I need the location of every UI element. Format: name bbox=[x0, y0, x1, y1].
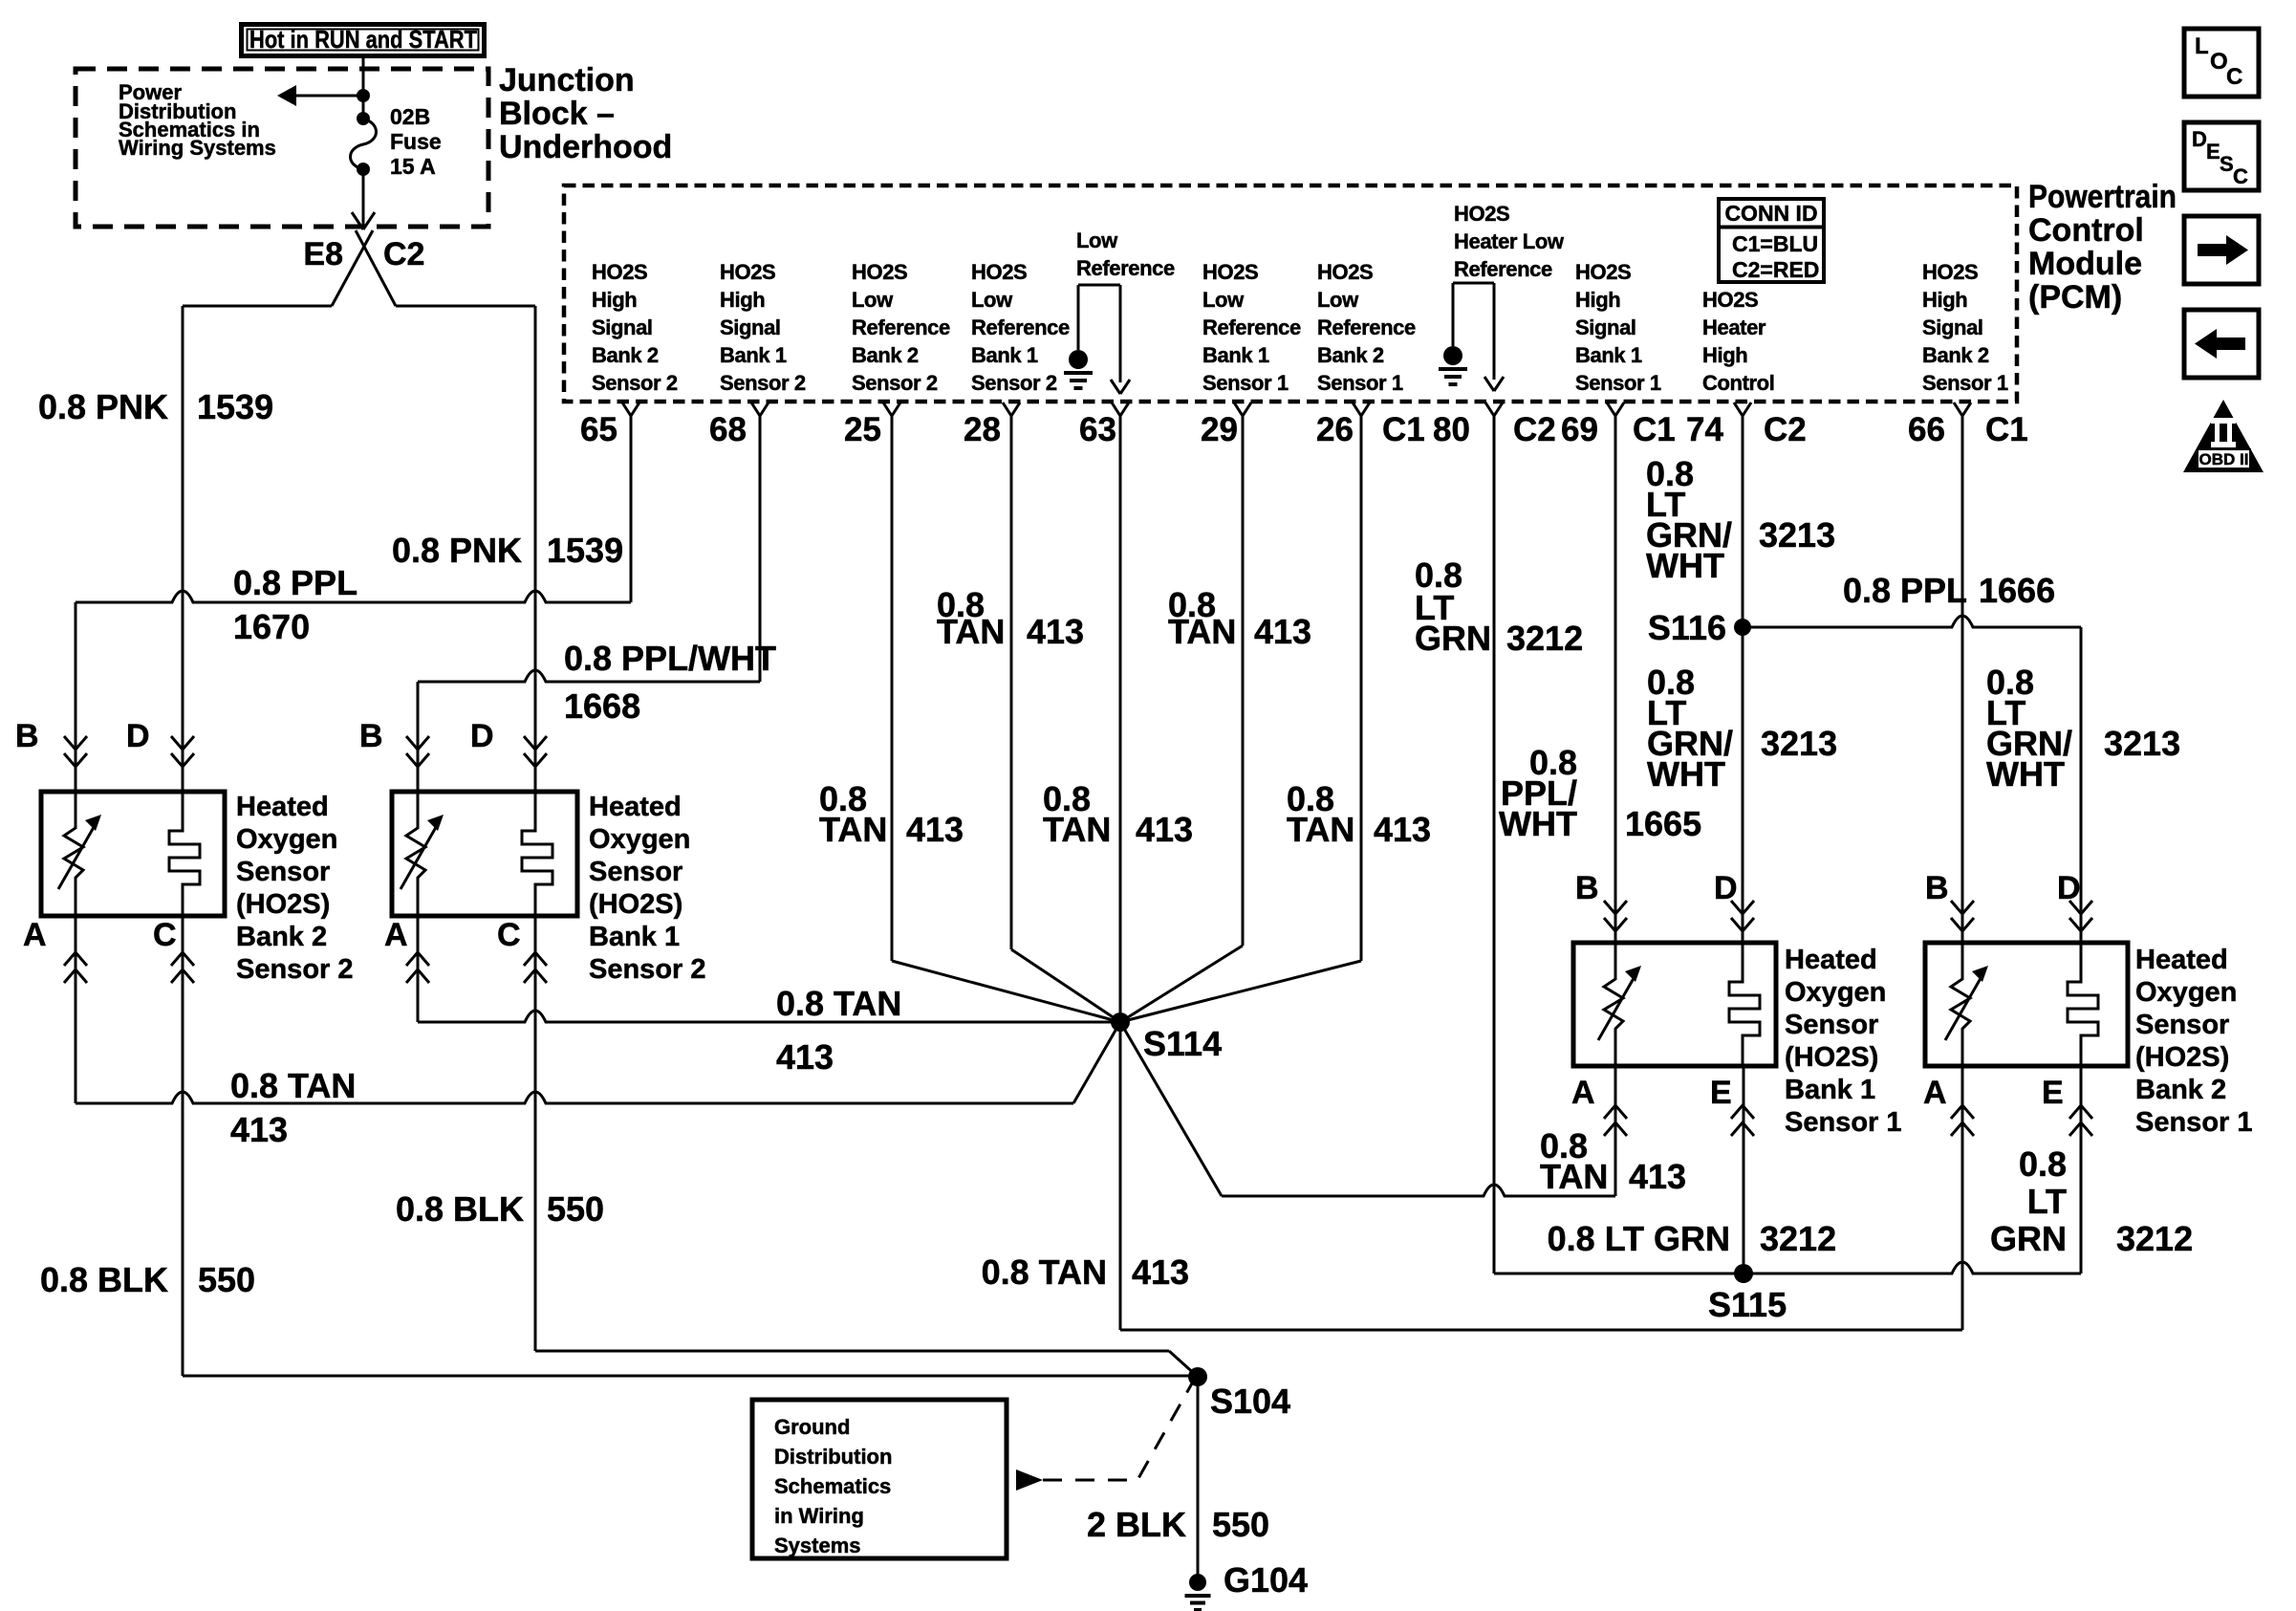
svg-text:0.8 TAN: 0.8 TAN bbox=[230, 1066, 356, 1105]
wire with down arrow into connector E8 bbox=[352, 172, 375, 229]
wire 2 BLK 550 to ground bbox=[1197, 1377, 1200, 1574]
svg-text:B: B bbox=[1925, 870, 1949, 906]
svg-text:LT: LT bbox=[2027, 1182, 2067, 1221]
svg-text:Reference: Reference bbox=[1076, 256, 1175, 280]
svg-text:Bank 2: Bank 2 bbox=[592, 343, 659, 367]
svg-text:Low: Low bbox=[852, 288, 894, 312]
pin 28 bbox=[1003, 403, 1020, 416]
label: Heated Oxygen Sensor (HO2S) Bank 1 Sensor 2 bbox=[589, 792, 706, 985]
svg-text:Bank 2: Bank 2 bbox=[852, 343, 919, 367]
svg-text:D: D bbox=[470, 718, 494, 754]
heater element (variable resistor) of HO2S Bank 2 Sensor 2 bbox=[64, 792, 83, 916]
svg-text:Control: Control bbox=[1702, 371, 1774, 395]
ground (internal, Low Reference pin 63) bbox=[1064, 285, 1093, 388]
svg-text:0.8 PPL/WHT: 0.8 PPL/WHT bbox=[564, 639, 776, 678]
svg-text:3212: 3212 bbox=[2116, 1219, 2193, 1258]
pin 68 bbox=[751, 403, 769, 416]
svg-text:HO2S: HO2S bbox=[971, 260, 1027, 284]
fuse F1 02B 15A bbox=[351, 112, 377, 176]
svg-text:Systems: Systems bbox=[774, 1534, 861, 1557]
svg-text:3212: 3212 bbox=[1506, 619, 1583, 658]
svg-text:TAN: TAN bbox=[937, 612, 1005, 651]
svg-text:65: 65 bbox=[580, 411, 617, 448]
svg-text:High: High bbox=[1702, 343, 1747, 367]
connector arrows out of B1S1 (A,E) bbox=[1604, 1105, 1627, 1119]
wire shoulders below E8/C2 bbox=[183, 305, 332, 308]
svg-text:Bank 2: Bank 2 bbox=[1317, 343, 1384, 367]
svg-text:Heater: Heater bbox=[1702, 316, 1766, 339]
label: Heated Oxygen Sensor (HO2S) Bank 2 Sensor 2 bbox=[236, 792, 354, 985]
svg-text:High: High bbox=[592, 288, 637, 312]
pin label HO2S Heater High Control (pin 74) bbox=[1702, 288, 1774, 395]
svg-text:High: High bbox=[720, 288, 765, 312]
svg-text:Bank 2: Bank 2 bbox=[1922, 343, 1989, 367]
svg-text:WHT: WHT bbox=[1647, 754, 1725, 794]
svg-text:S116: S116 bbox=[1648, 608, 1726, 647]
svg-text:HO2S: HO2S bbox=[720, 260, 775, 284]
wire pin69 PPL/WHT down to B of B1S1 bbox=[1614, 416, 1617, 943]
svg-text:C2=RED: C2=RED bbox=[1732, 257, 1819, 282]
pin label HO2S High Signal Bank 1 Sensor 2 (pin 68) bbox=[720, 260, 806, 395]
svg-text:413: 413 bbox=[776, 1037, 834, 1077]
sensing element of HO2S Bank 2 Sensor 1 bbox=[2068, 943, 2098, 1066]
svg-text:0.8 BLK: 0.8 BLK bbox=[40, 1260, 168, 1299]
arrow to power distribution bbox=[277, 85, 363, 106]
svg-text:413: 413 bbox=[1132, 1252, 1189, 1292]
svg-text:(HO2S): (HO2S) bbox=[2135, 1042, 2229, 1073]
wire bracket to pin 63 with arrow bbox=[1078, 285, 1130, 394]
svg-text:GRN: GRN bbox=[1990, 1219, 2067, 1258]
icon LOC button bbox=[2184, 29, 2259, 97]
svg-text:A: A bbox=[1571, 1075, 1595, 1111]
svg-text:413: 413 bbox=[1629, 1157, 1686, 1196]
svg-text:TAN: TAN bbox=[1540, 1157, 1608, 1196]
svg-text:Ground: Ground bbox=[774, 1415, 850, 1439]
svg-text:(PCM): (PCM) bbox=[2028, 279, 2122, 316]
svg-text:Bank 2: Bank 2 bbox=[236, 922, 327, 952]
wire pin63 down to S114 bbox=[1119, 416, 1122, 1022]
svg-text:S: S bbox=[2220, 152, 2234, 176]
svg-text:S115: S115 bbox=[1708, 1285, 1787, 1324]
svg-text:S104: S104 bbox=[1210, 1382, 1290, 1421]
pin 26 bbox=[1353, 403, 1370, 416]
svg-text:Wiring Systems: Wiring Systems bbox=[119, 136, 276, 160]
pin label HO2S High Signal Bank 2 Sensor 1 (pin 66) bbox=[1922, 260, 2008, 395]
wire 0.8 TAN 413 from A of B2S2 to S114 bbox=[76, 1092, 1073, 1103]
svg-text:C2: C2 bbox=[1764, 411, 1807, 448]
svg-text:1665: 1665 bbox=[1625, 804, 1701, 843]
wire A of B1S2 down to TAN bus bbox=[417, 916, 420, 1022]
heated oxygen sensor HO2S Bank 1 Sensor 2 box bbox=[392, 792, 577, 916]
splice S114 bbox=[1111, 1012, 1130, 1032]
svg-text:Low: Low bbox=[1202, 288, 1245, 312]
svg-text:3212: 3212 bbox=[1760, 1219, 1836, 1258]
pin 69 bbox=[1607, 403, 1624, 416]
svg-text:C1: C1 bbox=[1382, 411, 1425, 448]
wire C of B1S2 (BLK 550) down bbox=[534, 916, 537, 1351]
node junction dot bbox=[357, 89, 370, 102]
svg-text:Underhood: Underhood bbox=[499, 129, 672, 165]
svg-text:O: O bbox=[2210, 49, 2228, 75]
splice S104 bbox=[1188, 1367, 1207, 1386]
pin 29 bbox=[1234, 403, 1251, 416]
svg-text:413: 413 bbox=[1374, 810, 1431, 849]
pin label HO2S Low Reference Bank 2 Sensor 1 (pin 26) bbox=[1317, 260, 1416, 395]
svg-text:Heated: Heated bbox=[1785, 945, 1877, 975]
svg-text:69: 69 bbox=[1561, 411, 1598, 448]
svg-text:550: 550 bbox=[547, 1189, 604, 1229]
svg-text:C2: C2 bbox=[1513, 411, 1556, 448]
svg-text:Reference: Reference bbox=[852, 316, 950, 339]
svg-text:S114: S114 bbox=[1143, 1024, 1222, 1063]
splice S115 bbox=[1734, 1264, 1753, 1283]
svg-text:Low: Low bbox=[971, 288, 1013, 312]
svg-text:63: 63 bbox=[1079, 411, 1116, 448]
pin 74 bbox=[1734, 403, 1751, 416]
pin 66 bbox=[1954, 403, 1971, 416]
svg-text:Sensor: Sensor bbox=[2135, 1010, 2229, 1040]
svg-text:Heated: Heated bbox=[236, 792, 329, 822]
wire 0.8 TAN 413 from A of B1S2 to S114 bbox=[418, 1011, 1120, 1022]
connector X E8/C2 bbox=[332, 230, 396, 306]
svg-text:TAN: TAN bbox=[1168, 612, 1236, 651]
svg-text:Reference: Reference bbox=[1202, 316, 1301, 339]
icon prev-page arrow bbox=[2184, 310, 2259, 378]
heated oxygen sensor HO2S Bank 2 Sensor 2 box bbox=[41, 792, 225, 916]
svg-text:413: 413 bbox=[230, 1110, 288, 1149]
svg-text:C1: C1 bbox=[1633, 411, 1676, 448]
svg-text:E: E bbox=[1710, 1075, 1732, 1111]
svg-text:1666: 1666 bbox=[1979, 571, 2055, 610]
svg-text:(HO2S): (HO2S) bbox=[589, 889, 682, 920]
svg-text:3213: 3213 bbox=[2104, 724, 2180, 763]
svg-text:Fuse: Fuse bbox=[390, 129, 442, 154]
label box: Hot in RUN and START bbox=[242, 25, 485, 56]
PCM dashed box bbox=[564, 185, 2017, 402]
svg-text:Heated: Heated bbox=[589, 792, 682, 822]
connector arrows out of B1S2 (A,C) bbox=[406, 952, 429, 966]
svg-text:413: 413 bbox=[906, 810, 964, 849]
pin 65 bbox=[622, 403, 639, 416]
ground (internal, HO2S Heater Low Reference pin 80) bbox=[1439, 283, 1467, 384]
svg-text:Signal: Signal bbox=[592, 316, 653, 339]
pin 25 bbox=[883, 403, 900, 416]
svg-text:L: L bbox=[2195, 33, 2209, 59]
svg-text:High: High bbox=[1922, 288, 1967, 312]
svg-text:Distribution: Distribution bbox=[774, 1445, 892, 1469]
svg-text:C: C bbox=[497, 917, 521, 953]
icon next-page arrow bbox=[2184, 216, 2259, 284]
svg-text:C2: C2 bbox=[383, 236, 424, 272]
label: Heated Oxygen Sensor (HO2S) Bank 1 Sensor 1 bbox=[1785, 945, 1902, 1138]
svg-text:WHT: WHT bbox=[1646, 546, 1724, 585]
svg-text:D: D bbox=[2057, 870, 2081, 906]
svg-text:(HO2S): (HO2S) bbox=[1785, 1042, 1878, 1073]
svg-text:Oxygen: Oxygen bbox=[589, 824, 690, 855]
sensing element of HO2S Bank 1 Sensor 2 bbox=[522, 792, 552, 916]
svg-text:Sensor 2: Sensor 2 bbox=[720, 371, 806, 395]
svg-text:E: E bbox=[2206, 140, 2220, 163]
svg-text:68: 68 bbox=[709, 411, 747, 448]
svg-text:25: 25 bbox=[844, 411, 881, 448]
svg-text:Bank 1: Bank 1 bbox=[589, 922, 680, 952]
svg-text:Signal: Signal bbox=[720, 316, 781, 339]
svg-text:0.8 PPL: 0.8 PPL bbox=[233, 563, 357, 602]
svg-text:Schematics: Schematics bbox=[774, 1474, 891, 1498]
svg-text:C: C bbox=[153, 917, 177, 953]
pointer arrow from note box to S104 bbox=[1016, 1469, 1043, 1491]
svg-text:0.8 PPL: 0.8 PPL bbox=[1843, 571, 1967, 610]
svg-text:Junction: Junction bbox=[499, 62, 635, 98]
svg-text:Signal: Signal bbox=[1922, 316, 1983, 339]
wire bbox=[362, 98, 365, 113]
connector arrows into B2S2 (B,D) bbox=[64, 736, 87, 750]
connector arrows into B2S1 (B,D) bbox=[1951, 901, 1974, 914]
svg-text:Block –: Block – bbox=[499, 96, 615, 132]
wire 0.8 TAN 413 from S114 to A of B1S1 bbox=[1120, 1022, 1222, 1196]
svg-text:Bank 1: Bank 1 bbox=[1785, 1075, 1875, 1105]
svg-text:HO2S: HO2S bbox=[1702, 288, 1758, 312]
wire B of B2S2 down bbox=[75, 602, 77, 792]
svg-text:Oxygen: Oxygen bbox=[236, 824, 337, 855]
svg-text:Sensor 1: Sensor 1 bbox=[1785, 1107, 1902, 1138]
svg-text:CONN ID: CONN ID bbox=[1724, 201, 1817, 226]
svg-text:0.8 PNK: 0.8 PNK bbox=[392, 531, 522, 570]
splice S116 bbox=[1734, 619, 1751, 636]
svg-text:HO2S: HO2S bbox=[1202, 260, 1258, 284]
wire from Hot box to fuse bbox=[362, 57, 365, 93]
svg-text:D: D bbox=[126, 718, 150, 754]
svg-text:Low: Low bbox=[1317, 288, 1359, 312]
svg-text:Bank 1: Bank 1 bbox=[971, 343, 1038, 367]
svg-text:1539: 1539 bbox=[547, 531, 623, 570]
svg-text:28: 28 bbox=[964, 411, 1001, 448]
sensing element of HO2S Bank 1 Sensor 1 bbox=[1729, 943, 1760, 1066]
wire pin68 PPL/WHT down bbox=[759, 416, 762, 682]
pin 80 bbox=[1485, 403, 1503, 416]
svg-text:Sensor: Sensor bbox=[236, 857, 330, 887]
heater element (variable resistor) of HO2S Bank 1 Sensor 1 bbox=[1604, 943, 1623, 1066]
icon OBD II logo bbox=[2183, 400, 2264, 472]
svg-text:Control: Control bbox=[2028, 212, 2144, 249]
pin label HO2S High Signal Bank 1 Sensor 1 (pin 69) bbox=[1575, 260, 1661, 395]
wire pin80 LT GRN down bbox=[1493, 416, 1496, 1274]
svg-text:Sensor: Sensor bbox=[589, 857, 682, 887]
label: Junction Block - Underhood bbox=[499, 62, 672, 165]
svg-text:Sensor 1: Sensor 1 bbox=[1317, 371, 1403, 395]
svg-text:Sensor 2: Sensor 2 bbox=[592, 371, 678, 395]
svg-text:Bank 1: Bank 1 bbox=[1575, 343, 1642, 367]
wire A of B2S2 down to TAN bus bbox=[75, 916, 77, 1103]
svg-text:E: E bbox=[2042, 1075, 2064, 1111]
svg-text:C1=BLU: C1=BLU bbox=[1732, 231, 1818, 256]
heated oxygen sensor HO2S Bank 2 Sensor 1 box bbox=[1925, 943, 2128, 1066]
svg-text:413: 413 bbox=[1254, 612, 1311, 651]
svg-text:Signal: Signal bbox=[1575, 316, 1636, 339]
svg-text:A: A bbox=[23, 917, 47, 953]
svg-text:Sensor: Sensor bbox=[1785, 1010, 1878, 1040]
svg-text:Sensor 1: Sensor 1 bbox=[2135, 1107, 2253, 1138]
svg-text:B: B bbox=[15, 718, 39, 754]
svg-text:Oxygen: Oxygen bbox=[2135, 977, 2237, 1008]
svg-text:Reference: Reference bbox=[971, 316, 1070, 339]
connector arrows into B1S2 (B,D) bbox=[406, 736, 429, 750]
wire PNK vertical right (D of B1S2) bbox=[534, 306, 537, 792]
pin label Low Reference (pin 63) bbox=[1076, 229, 1175, 280]
svg-text:TAN: TAN bbox=[819, 810, 887, 849]
svg-text:C1: C1 bbox=[1985, 411, 2028, 448]
svg-text:15 A: 15 A bbox=[390, 154, 436, 179]
svg-text:HO2S: HO2S bbox=[852, 260, 907, 284]
icon DESC button bbox=[2184, 122, 2259, 190]
wire 0.8 TAN 413 from S114 down to A of B2S1 bbox=[1119, 1022, 1122, 1330]
wire pin66 down to B of B2S1 bbox=[1961, 416, 1964, 943]
junction block dashed box bbox=[76, 69, 488, 227]
svg-text:80: 80 bbox=[1433, 411, 1470, 448]
svg-text:Sensor 1: Sensor 1 bbox=[1922, 371, 2008, 395]
svg-text:66: 66 bbox=[1908, 411, 1945, 448]
pin 63 bbox=[1112, 403, 1129, 416]
wire 0.8 LT GRN 3212 bus through S115 bbox=[1494, 1262, 2081, 1274]
svg-text:Hot in RUN and START: Hot in RUN and START bbox=[249, 25, 477, 54]
pin label HO2S Low Reference Bank 1 Sensor 1 (pin 29) bbox=[1202, 260, 1301, 395]
svg-text:(HO2S): (HO2S) bbox=[236, 889, 330, 920]
svg-text:3213: 3213 bbox=[1761, 724, 1837, 763]
svg-text:Module: Module bbox=[2028, 246, 2142, 282]
svg-text:HO2S: HO2S bbox=[1922, 260, 1978, 284]
heater element (variable resistor) of HO2S Bank 2 Sensor 1 bbox=[1951, 943, 1970, 1066]
heated oxygen sensor HO2S Bank 1 Sensor 1 box bbox=[1573, 943, 1776, 1066]
label: Powertrain Control Module (PCM) bbox=[2028, 179, 2177, 316]
svg-text:Reference: Reference bbox=[1454, 257, 1552, 281]
svg-text:413: 413 bbox=[1027, 612, 1084, 651]
svg-text:D: D bbox=[2192, 127, 2207, 151]
svg-text:74: 74 bbox=[1686, 411, 1723, 448]
svg-text:Sensor 1: Sensor 1 bbox=[1202, 371, 1289, 395]
ground G104 bbox=[1185, 1574, 1211, 1610]
svg-text:WHT: WHT bbox=[1499, 804, 1577, 843]
svg-text:HO2S: HO2S bbox=[1575, 260, 1631, 284]
svg-text:Sensor 2: Sensor 2 bbox=[971, 371, 1057, 395]
svg-text:Reference: Reference bbox=[1317, 316, 1416, 339]
note: Power Distribution Schematics in Wiring Systems bbox=[119, 80, 276, 160]
wire pin65 PPL down bbox=[630, 416, 633, 602]
svg-text:0.8 BLK: 0.8 BLK bbox=[396, 1189, 524, 1229]
svg-text:Bank 1: Bank 1 bbox=[720, 343, 787, 367]
svg-text:Low: Low bbox=[1076, 229, 1118, 252]
wire 0.8 PPL 1666 from S116 to D of B2S1 bbox=[1743, 616, 2081, 627]
heater element (variable resistor) of HO2S Bank 1 Sensor 2 bbox=[406, 792, 425, 916]
wire C of B2S2 (BLK 550) down bbox=[182, 916, 184, 1376]
wire BLK 550 from C of B1S2 to S104 bbox=[535, 1350, 1169, 1353]
wire pin25 TAN down bbox=[891, 416, 894, 961]
svg-text:A: A bbox=[384, 917, 408, 953]
svg-text:26: 26 bbox=[1316, 411, 1354, 448]
svg-text:HO2S: HO2S bbox=[1454, 202, 1509, 226]
svg-text:2 BLK: 2 BLK bbox=[1087, 1505, 1186, 1544]
svg-text:0.8: 0.8 bbox=[2019, 1144, 2067, 1184]
pin label HO2S High Signal Bank 2 Sensor 2 (pin 65) bbox=[592, 260, 678, 395]
svg-text:Sensor 1: Sensor 1 bbox=[1575, 371, 1661, 395]
svg-text:OBD II: OBD II bbox=[2199, 450, 2249, 468]
svg-text:1539: 1539 bbox=[197, 387, 273, 426]
wire pin29 TAN down bbox=[1242, 416, 1245, 946]
svg-text:C: C bbox=[2233, 164, 2248, 188]
wire pin28 TAN down bbox=[1010, 416, 1013, 949]
wire pin26 down bbox=[1360, 416, 1363, 961]
svg-text:Sensor 2: Sensor 2 bbox=[236, 954, 354, 985]
svg-text:C: C bbox=[2226, 64, 2242, 90]
sensing element of HO2S Bank 2 Sensor 2 bbox=[169, 792, 200, 916]
wire BLK 550 from C of B2S2 to S104 bbox=[183, 1375, 1188, 1378]
svg-text:Bank 1: Bank 1 bbox=[1202, 343, 1269, 367]
svg-text:1670: 1670 bbox=[233, 607, 310, 646]
svg-text:TAN: TAN bbox=[1043, 810, 1111, 849]
svg-text:HO2S: HO2S bbox=[592, 260, 647, 284]
wire 0.8 PPL/WHT 1668 horizontal bbox=[418, 670, 760, 682]
wire D of B2S1 down from PPL 1666 bbox=[2080, 627, 2083, 943]
svg-text:Powertrain: Powertrain bbox=[2028, 179, 2177, 215]
svg-text:02B: 02B bbox=[390, 104, 430, 129]
svg-text:Heater Low: Heater Low bbox=[1454, 229, 1565, 253]
wire bracket to pin 80 with arrow bbox=[1453, 283, 1504, 391]
wire B of B1S2 down bbox=[417, 682, 420, 792]
svg-text:Heated: Heated bbox=[2135, 945, 2228, 975]
CONN ID table: C1=BLU C2=RED bbox=[1719, 199, 1824, 282]
svg-text:G104: G104 bbox=[1224, 1560, 1308, 1600]
svg-text:HO2S: HO2S bbox=[1317, 260, 1373, 284]
svg-text:E8: E8 bbox=[303, 236, 343, 272]
wire pin74 LT GRN/WHT down through S116 bbox=[1742, 416, 1744, 943]
svg-text:0.8 LT GRN: 0.8 LT GRN bbox=[1548, 1219, 1730, 1258]
svg-text:in Wiring: in Wiring bbox=[774, 1504, 864, 1528]
wire PNK vertical left (D of B2S2) bbox=[182, 306, 184, 792]
svg-text:WHT: WHT bbox=[1986, 754, 2065, 794]
svg-text:0.8 TAN: 0.8 TAN bbox=[982, 1252, 1107, 1292]
svg-text:TAN: TAN bbox=[1287, 810, 1354, 849]
svg-text:550: 550 bbox=[1212, 1505, 1269, 1544]
svg-text:A: A bbox=[1923, 1075, 1947, 1111]
svg-text:Sensor 2: Sensor 2 bbox=[852, 371, 938, 395]
svg-text:1668: 1668 bbox=[564, 686, 640, 726]
svg-text:GRN: GRN bbox=[1415, 619, 1491, 658]
svg-text:3213: 3213 bbox=[1759, 515, 1835, 555]
label: 02B Fuse 15 A bbox=[390, 104, 442, 179]
svg-text:0.8 TAN: 0.8 TAN bbox=[776, 984, 901, 1023]
svg-text:0.8 PNK: 0.8 PNK bbox=[38, 387, 168, 426]
pin label HO2S Heater Low Reference (pin 80) bbox=[1454, 202, 1565, 281]
svg-text:29: 29 bbox=[1201, 411, 1238, 448]
svg-text:High: High bbox=[1575, 288, 1620, 312]
pin label HO2S Low Reference Bank 1 Sensor 2 (pin 28) bbox=[971, 260, 1070, 395]
svg-text:413: 413 bbox=[1136, 810, 1193, 849]
connector arrows out of B2S2 (A,C) bbox=[64, 952, 87, 966]
svg-text:Sensor 2: Sensor 2 bbox=[589, 954, 706, 985]
connector arrows into B1S1 (B,D) bbox=[1604, 901, 1627, 914]
svg-text:Oxygen: Oxygen bbox=[1785, 977, 1886, 1008]
ground distribution note box bbox=[752, 1400, 1007, 1558]
svg-text:D: D bbox=[1714, 870, 1738, 906]
label: Heated Oxygen Sensor (HO2S) Bank 2 Sensor 1 bbox=[2135, 945, 2253, 1138]
svg-text:550: 550 bbox=[198, 1260, 255, 1299]
svg-text:B: B bbox=[1575, 870, 1599, 906]
pin label HO2S Low Reference Bank 2 Sensor 2 (pin 25) bbox=[852, 260, 950, 395]
svg-text:B: B bbox=[359, 718, 383, 754]
svg-text:Bank 2: Bank 2 bbox=[2135, 1075, 2226, 1105]
connector arrows out of B2S1 (A,E) bbox=[1951, 1105, 1974, 1119]
wire 0.8 PPL 1670 horizontal bbox=[76, 591, 631, 602]
